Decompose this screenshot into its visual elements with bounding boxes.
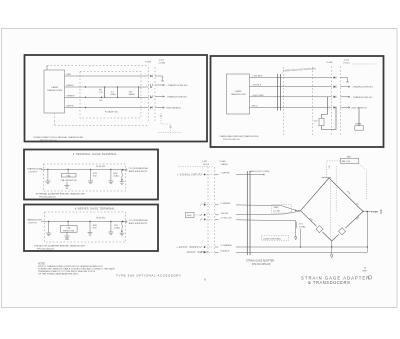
connector contact dots box A — [150, 75, 152, 77]
box D signal wire — [41, 221, 124, 223]
schematic box A border (4-arm transducer diagram) — [25, 55, 208, 142]
cable resistance bracket — [295, 222, 298, 229]
readout termination box — [358, 107, 360, 125]
svg-text:& TRANSDUCERS: & TRANSDUCERS — [308, 280, 350, 285]
svg-text:OUTPUT: OUTPUT — [29, 172, 39, 174]
ground symbol C3 — [88, 181, 93, 184]
svg-text:AMPLIFIER INPUT: AMPLIFIER INPUT — [129, 170, 148, 173]
ground symbol D5 — [120, 231, 125, 236]
svg-text:4 ARM: 4 ARM — [51, 86, 58, 89]
svg-text:2 ARM (HALF BRIDGE) TRANSDUCER: 2 ARM (HALF BRIDGE) TRANSDUCER — [220, 135, 259, 138]
bridge output wire — [362, 211, 363, 212]
bridge top corner tick — [322, 177, 332, 179]
spare pin dashed hook — [161, 113, 171, 133]
cable shield lines — [247, 171, 250, 255]
svg-text:J-101: J-101 — [159, 60, 165, 62]
svg-text:PLUG: PLUG — [203, 164, 209, 166]
dashed vertical below block — [54, 113, 56, 126]
connector boundary dashed B — [331, 67, 333, 137]
row1 pin — [200, 173, 202, 175]
svg-text:( + IN: ( + IN — [372, 211, 378, 214]
svg-text:P-608: P-608 — [327, 62, 334, 64]
svg-text:TRANSDUCER: TRANSDUCER — [47, 89, 63, 92]
svg-text:+ TRANSDUCER SIG: + TRANSDUCER SIG — [166, 84, 188, 87]
wire w2 BLACK — [65, 86, 149, 88]
box D ground drop left — [48, 222, 50, 234]
ground symbol C4 — [108, 181, 113, 184]
svg-text:AMPLIFIER INPUT: AMPLIFIER INPUT — [129, 222, 148, 225]
top dashed tick line — [178, 166, 213, 168]
svg-text:CAL RESISTOR: CAL RESISTOR — [61, 179, 77, 182]
svg-text:P-608: P-608 — [145, 62, 152, 64]
pin marks box A rows — [151, 75, 153, 77]
wire w3 GREEN — [65, 96, 149, 98]
svg-text:OUTPUT: OUTPUT — [28, 223, 38, 225]
svg-text:CONN: CONN — [159, 63, 166, 65]
schematic box C border (gage terminal diagram 1) — [24, 150, 158, 200]
output pin box C — [123, 168, 128, 171]
svg-text:R-10 350: R-10 350 — [96, 166, 106, 168]
svg-text:(CAL): (CAL) — [110, 93, 116, 96]
svg-text:SHLD: SHLD — [252, 105, 258, 107]
svg-text:2 GREEN: 2 GREEN — [221, 203, 231, 205]
drop from bridge left corner to rail — [299, 229, 301, 248]
shield dashed line bottom — [55, 125, 149, 127]
bridge right return wire — [366, 212, 368, 253]
wire b2 — [250, 86, 332, 88]
ground symbol C5 — [120, 180, 125, 185]
REF dashed callout on row2 — [272, 205, 292, 214]
cable region dashed boundaries B — [283, 67, 285, 135]
svg-text:BAL 10K: BAL 10K — [342, 160, 351, 163]
svg-text:+ EXCIT. SUPPLY: + EXCIT. SUPPLY — [177, 246, 201, 249]
svg-text:P-608: P-608 — [220, 161, 227, 163]
svg-text:TYPE 3A0 OPTIONAL ACCESSORY: TYPE 3A0 OPTIONAL ACCESSORY — [116, 274, 182, 278]
svg-text:GAGE: GAGE — [129, 93, 136, 96]
wire b1 — [250, 77, 332, 79]
cal resistor box D — [67, 221, 68, 222]
svg-text:OF THE STRAIN GAGE ADAPTER UNI: OF THE STRAIN GAGE ADAPTER UNIT. — [38, 272, 79, 275]
svg-text:- SIG BLK: - SIG BLK — [252, 85, 262, 87]
svg-text:GREEN: GREEN — [67, 95, 75, 97]
svg-text:- TRANSDUCER SIG: - TRANSDUCER SIG — [166, 96, 187, 99]
svg-text:TO DIFFERENTIAL: TO DIFFERENTIAL — [129, 167, 149, 170]
svg-text:J-101: J-101 — [344, 60, 350, 62]
svg-text:5 ORANGE: 5 ORANGE — [221, 244, 233, 247]
svg-text:NET: NET — [347, 156, 352, 158]
output node box D — [122, 221, 124, 223]
output node box C — [122, 169, 124, 171]
svg-text:4 YELLOW: 4 YELLOW — [221, 218, 233, 220]
svg-text:CABLE: CABLE — [221, 163, 229, 166]
schematic box D border (gage terminal diagram 2) — [24, 205, 158, 252]
svg-text:+ EXC GRN: + EXC GRN — [252, 95, 264, 97]
svg-text:SHIELD (NO CONN): SHIELD (NO CONN) — [249, 171, 270, 173]
svg-text:R GAGE 350: R GAGE 350 — [105, 111, 119, 114]
svg-text:P/N 015-0041-00: P/N 015-0041-00 — [223, 139, 240, 141]
wire b3 — [250, 96, 332, 98]
transducer block B1 — [227, 74, 250, 114]
wire from block top to shield dashes — [46, 66, 48, 71]
svg-text:GND: GND — [187, 215, 192, 217]
svg-text:TRANSDUCER: TRANSDUCER — [27, 219, 43, 222]
svg-text:3 BLUE: 3 BLUE — [221, 213, 229, 215]
wire b4 — [250, 106, 332, 108]
svg-text:4 TERMINAL GAGE TERMINAL: 4 TERMINAL GAGE TERMINAL — [73, 152, 118, 156]
registered circle symbol — [368, 276, 372, 280]
resistor R3 (w2-w3) — [138, 87, 140, 97]
ground symbol D1 — [46, 233, 51, 236]
schematic box B border (2-arm transducer diagram) — [211, 56, 384, 147]
svg-text:REF: REF — [363, 271, 368, 273]
svg-text:TRANSDUCER: TRANSDUCER — [27, 168, 43, 171]
arrow + label w3 — [155, 96, 165, 97]
svg-text:(+) IN): (+) IN) — [274, 211, 281, 213]
resistor R2 (w2-w3) — [116, 87, 118, 97]
svg-text:4 SERIES GAGE TERMINAL: 4 SERIES GAGE TERMINAL — [75, 207, 116, 211]
svg-text:+ SIGNAL INPUT: + SIGNAL INPUT — [177, 174, 201, 177]
bal network dashed drop — [359, 163, 367, 200]
ground symbol D2 — [65, 232, 70, 239]
svg-text:ONE ACTIVE (QUARTER BRIDGE) TR: ONE ACTIVE (QUARTER BRIDGE) TRANSDUCER — [34, 245, 85, 248]
connector boundary dashed P-608 — [214, 167, 216, 255]
svg-text:(CASE GROUND): (CASE GROUND) — [263, 237, 281, 240]
svg-text:PLUG: PLUG — [344, 63, 350, 65]
svg-text:J-101: J-101 — [202, 161, 208, 163]
connector contact dots box B — [334, 77, 336, 79]
box C ground drop left — [47, 169, 49, 181]
arrow + label b2 — [340, 86, 350, 87]
resistor RD2 — [110, 221, 111, 222]
pin marks box B rows — [334, 76, 337, 78]
completion resistor R120 — [322, 97, 328, 119]
shield stub hook row1 — [155, 76, 164, 81]
row3 pin — [200, 214, 202, 216]
bridge lower-left edge + gage resistor — [301, 211, 332, 241]
arrow + label w4 — [155, 107, 165, 108]
svg-text:RED: RED — [67, 74, 72, 76]
case ground dashed callout — [262, 236, 289, 241]
arrow + label b3 — [340, 96, 350, 97]
connector P-608 dashed boundary — [148, 67, 150, 122]
wire w1 RED — [65, 75, 149, 77]
box D dashed enclosure — [45, 212, 126, 242]
svg-text:(REF: (REF — [274, 207, 280, 209]
bridge center dashed — [330, 181, 332, 240]
svg-text:+ TRANSDUCER SIG: + TRANSDUCER SIG — [352, 86, 374, 89]
svg-text:EXTERNAL (QUARTER BRIDGE) TRAN: EXTERNAL (QUARTER BRIDGE) TRANSDUCER — [36, 193, 85, 196]
svg-text:TRANSDUCER: TRANSDUCER — [230, 93, 246, 96]
svg-text:P/N 013-0051-00: P/N 013-0051-00 — [252, 263, 271, 266]
ground symbol D3 — [88, 233, 93, 236]
output pin box D — [123, 220, 128, 223]
svg-text:R-20 350: R-20 350 — [96, 217, 106, 219]
svg-text:(CAL): (CAL) — [114, 175, 120, 178]
svg-text:(CAL): (CAL) — [114, 227, 120, 230]
cable lines B — [278, 74, 281, 111]
svg-text:P/N 015-0043-00: P/N 015-0043-00 — [39, 197, 56, 199]
box C signal wire — [41, 168, 124, 170]
svg-text:BLACK: BLACK — [67, 84, 75, 87]
bridge bottom corner drop + arrow — [330, 241, 333, 258]
ground symbol C1 — [45, 181, 50, 184]
row2 pin — [200, 204, 202, 206]
wire w4 WHITE — [65, 107, 149, 109]
svg-text:TO DIFFERENTIAL: TO DIFFERENTIAL — [129, 219, 149, 222]
svg-text:2 ARM: 2 ARM — [235, 90, 242, 93]
svg-text:P/N 015-0040-00: P/N 015-0040-00 — [40, 140, 57, 142]
resistor RC2 — [110, 169, 111, 170]
svg-text:WHITE: WHITE — [67, 106, 75, 108]
svg-text:INTERCONNECT (FULL BRIDGE) TRA: INTERCONNECT (FULL BRIDGE) TRANSDUCER — [34, 136, 84, 139]
transducer block A1 — [44, 70, 65, 113]
svg-text:+ SIG RED: + SIG RED — [252, 76, 263, 78]
connector boundary dashed J-101 — [207, 167, 209, 255]
resistor R1 (w2-w3) — [104, 87, 106, 97]
svg-text:RESISTOR: RESISTOR — [63, 230, 75, 232]
shield stub hook b1 — [340, 78, 349, 83]
svg-text:6 BLACK: 6 BLACK — [221, 250, 231, 253]
GND box row3 — [186, 213, 195, 218]
inner dashed enclosure — [80, 72, 141, 119]
svg-text:TERM: TERM — [355, 124, 361, 126]
bal network dashed riser — [327, 161, 341, 178]
cal resistor box C — [67, 169, 68, 170]
svg-text:1 WHITE: 1 WHITE — [221, 173, 230, 175]
box C dashed enclosure — [43, 164, 125, 191]
row4 case ground drop + arrow — [295, 221, 297, 240]
bridge upper-left edge — [301, 178, 330, 211]
junction dots on bus — [85, 86, 86, 87]
svg-text:P/N 015-0044-00: P/N 015-0044-00 — [37, 249, 54, 251]
bridge shield dashed — [335, 166, 337, 212]
bridge upper-right edge — [329, 178, 363, 212]
svg-text:- TRANSDUCER SIG: - TRANSDUCER SIG — [352, 96, 373, 99]
bridge lower-right edge + gage resistor — [332, 212, 363, 242]
connector J-101 dashed boundary — [154, 67, 156, 122]
dash-dot line top right B — [352, 63, 377, 65]
ground symbol C2 — [65, 182, 70, 188]
svg-text:TOTAL: TOTAL — [299, 225, 307, 228]
node dot w3 — [101, 97, 102, 98]
bal network box — [341, 158, 359, 163]
arrow + label b4 — [340, 107, 350, 108]
shield dashed line top — [47, 65, 149, 67]
ground symbol D4 — [108, 232, 113, 235]
svg-text:GND (SHIELD): GND (SHIELD) — [166, 108, 181, 110]
arrow + label w2 — [155, 84, 165, 85]
